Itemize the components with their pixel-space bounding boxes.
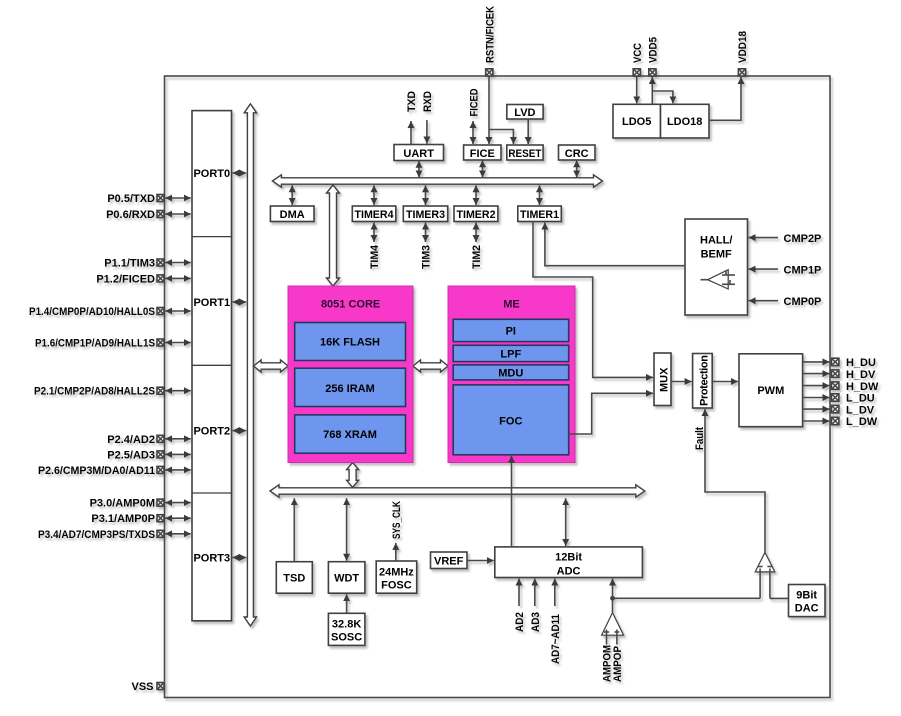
wire ADC to lower bus [565,498,567,546]
svg-text:VDD18: VDD18 [737,31,749,63]
wire UART to bus [418,161,420,178]
svg-text:VCC: VCC [632,43,644,63]
9Bit DAC box [789,585,826,617]
UART box [394,145,444,161]
wire SOSC to WDT [346,594,348,613]
op-amp AMP0 [602,598,624,644]
wire AD2 into ADC [518,579,520,607]
wire TIM4 [373,223,375,243]
svg-text:PWM: PWM [757,385,784,397]
svg-text:Protection: Protection [699,355,711,406]
svg-text:PORT0: PORT0 [193,168,230,180]
svg-text:CMP1P: CMP1P [784,264,822,276]
pin VCC [632,43,644,76]
svg-text:768 XRAM: 768 XRAM [323,429,377,441]
svg-text:P0.6/RXD: P0.6/RXD [106,209,155,221]
svg-text:CRC: CRC [565,148,589,160]
svg-text:H_DW: H_DW [846,381,879,393]
12Bit ADC box [495,547,643,578]
svg-text:CMP2P: CMP2P [784,233,822,245]
svg-text:DMA: DMA [280,209,305,221]
svg-text:UART: UART [403,148,434,160]
svg-text:P2.6/CMP3M/DA0/AD11: P2.6/CMP3M/DA0/AD11 [38,465,155,477]
wire DAC to comparator input [770,597,789,599]
wire junction to ADC [612,579,614,599]
ports column box [192,111,232,621]
svg-text:TIMER3: TIMER3 [406,209,445,221]
pin H_DW [832,381,880,393]
wire TIM3 [425,223,427,243]
wire AD3 into ADC [534,579,536,607]
pin VSS [131,681,164,693]
pin P0.6/RXD [106,209,191,221]
svg-text:LPF: LPF [500,348,521,360]
svg-text:HALL/: HALL/ [700,235,732,247]
wire FICED to FICE [472,121,474,144]
FICE box [464,145,501,160]
WDT box [328,562,365,594]
wire VREF to ADC [467,560,494,562]
wire VDD5 branch to LDO18 [652,91,673,103]
svg-text:TIM3: TIM3 [421,245,433,269]
svg-text:LDO5: LDO5 [622,116,651,128]
wire ADC to FOC [511,456,513,547]
pin P3.1/AMP0P [91,513,190,525]
svg-text:AD2: AD2 [514,612,526,632]
wire SYS_CLK [395,543,397,561]
wire WDT to bus [346,498,348,561]
hollow arrow ports bus to 8051 left [254,360,288,372]
svg-text:P1.4/CMP0P/AD10/HALL0S: P1.4/CMP0P/AD10/HALL0S [29,306,155,318]
LDO18 box [661,104,710,138]
comparator glyph inside HALL/BEMF [701,270,736,289]
svg-text:FICED: FICED [468,88,480,116]
LPF [453,345,569,361]
svg-text:SOSC: SOSC [331,631,362,643]
svg-text:VREF: VREF [434,556,464,568]
wire CRC to bus [576,160,578,177]
wire TIMER1 to bus [539,185,541,205]
DMA box [270,206,314,222]
svg-text:VDD5: VDD5 [647,37,659,63]
svg-text:BEMF: BEMF [701,249,732,261]
svg-text:P2.4/AD2: P2.4/AD2 [107,434,155,446]
TIMER4 box [352,206,396,222]
wire PWM to L_DV [803,408,830,410]
wire PWM to H_DV [803,373,830,375]
wire LDO18 to VDD18 pin [709,77,741,120]
wire PWM to H_DW [803,385,830,387]
svg-text:256 IRAM: 256 IRAM [325,383,375,395]
pin P0.5/TXD [107,193,190,205]
wire CMP0P input [749,300,779,302]
svg-text:TIMER1: TIMER1 [520,209,559,221]
pin P2.6/CMP3M/DA0/AD11 [38,465,191,477]
svg-text:H_DU: H_DU [846,357,876,369]
ports vertical bus [244,104,256,626]
svg-text:P2.5/AD3: P2.5/AD3 [107,449,155,461]
svg-text:24MHz: 24MHz [379,567,414,579]
FOC [453,385,569,455]
wire VCC to LDO5 [636,76,638,103]
wire Fault comparator to Protection [705,409,765,552]
wire Protection to PWM [712,381,738,383]
svg-text:12Bit: 12Bit [555,551,582,563]
comparator U2 near DAC [755,552,775,598]
lower peripheral bus [270,485,645,497]
svg-text:PI: PI [506,325,516,337]
32.8K SOSC box [328,613,365,645]
CRC box [559,145,596,160]
8051 CORE block [288,286,413,463]
upper peripheral bus [272,175,602,187]
RESET box [507,145,543,160]
svg-text:P3.4/AD7/CMP3PS/TXDS: P3.4/AD7/CMP3PS/TXDS [38,529,155,541]
PI [453,319,569,341]
svg-text:P1.6/CMP1P/AD9/HALL1S: P1.6/CMP1P/AD9/HALL1S [35,338,155,350]
svg-text:VSS: VSS [131,681,153,693]
svg-text:P1.1/TIM3: P1.1/TIM3 [104,258,155,270]
hollow arrow 8051 bottom to lower bus [347,463,359,488]
svg-text:TIM4: TIM4 [369,244,381,269]
wire CMP2P input [749,237,779,239]
wire LVD to RESET [527,119,529,144]
pin RSTN/FICEK [484,6,496,76]
svg-text:AD3: AD3 [530,612,542,632]
wire RSTN branch to RESET [489,130,513,145]
pin P1.2/FICED [96,273,190,285]
svg-text:RSTN/FICEK: RSTN/FICEK [484,6,496,63]
pin P1.4/CMP0P/AD10/HALL0S [29,306,191,318]
svg-text:FICE: FICE [470,148,495,160]
wire TIMER3 to bus [425,185,427,205]
pin L_DV [832,404,875,416]
24MHz FOSC box [376,561,417,593]
svg-text:P3.1/AMP0P: P3.1/AMP0P [91,513,155,525]
svg-text:TXD: TXD [406,91,418,112]
LVD box [507,105,543,120]
wire FICE to bus [482,160,484,177]
svg-text:LVD: LVD [514,107,535,119]
svg-text:PORT1: PORT1 [193,297,230,309]
ME block [448,286,575,463]
wire LDO5 to VDD5 pin [651,77,653,104]
svg-text:DAC: DAC [795,603,819,615]
pin L_DU [832,393,875,405]
svg-text:L_DU: L_DU [846,393,875,405]
wire AD7~AD11 into ADC [554,579,556,607]
wire DMA to bus [291,185,293,205]
wire MUX to Protection [671,381,692,383]
wire TXD out of UART [410,121,412,145]
svg-text:PORT2: PORT2 [193,426,230,438]
pin VDD18 [737,31,749,76]
wire PORT0 to port bus [233,172,247,174]
svg-text:9Bit: 9Bit [796,590,817,602]
MUX box [654,353,671,406]
pin P1.6/CMP1P/AD9/HALL1S [35,338,191,350]
pin P2.5/AD3 [107,449,191,461]
svg-text:TIM2: TIM2 [471,245,483,269]
svg-text:FOSC: FOSC [381,580,412,592]
wire TIM2 [475,223,477,243]
hollow arrow 8051 to ME [413,360,448,372]
svg-text:PORT3: PORT3 [193,553,230,565]
TIMER3 box [403,206,447,222]
LDO5 box [613,104,661,138]
svg-text:P3.0/AMP0M: P3.0/AMP0M [90,498,155,510]
wire TSD to bus [293,498,295,562]
svg-text:LDO18: LDO18 [667,116,702,128]
svg-text:AD7~AD11: AD7~AD11 [550,614,562,664]
TSD box [276,562,312,594]
svg-text:ADC: ADC [557,565,581,577]
wire TIMER4 to bus [373,185,375,205]
TIMER2 box [454,206,498,222]
svg-text:WDT: WDT [334,573,359,585]
hollow arrow bus to 8051 top [327,185,340,286]
svg-text:P1.2/FICED: P1.2/FICED [96,273,155,285]
wire TIMER1 to MUX [533,222,653,378]
MDU [453,365,569,380]
pin P3.0/AMP0M [90,498,191,510]
svg-text:CMP0P: CMP0P [784,296,822,308]
PWM box [739,354,803,427]
VREF box [431,552,468,569]
wire RSTN/FICEK to FICE [488,76,490,144]
svg-text:RESET: RESET [508,148,541,160]
pin P2.1/CMP2P/AD8/HALL2S [34,386,191,398]
pin VDD5 [647,37,659,76]
wire amp junction to comparator input [613,597,761,599]
svg-text:TIMER4: TIMER4 [355,209,395,221]
svg-text:MUX: MUX [659,367,671,392]
svg-text:32.8K: 32.8K [332,618,361,630]
wire HALL/BEMF out to TIMER1 [545,223,685,266]
svg-text:FOC: FOC [499,415,522,427]
svg-text:TSD: TSD [283,573,305,585]
16K FLASH [295,323,406,361]
wire PWM to L_DW [803,420,830,422]
pin P1.1/TIM3 [104,258,191,270]
svg-text:ME: ME [503,298,520,310]
svg-text:16K FLASH: 16K FLASH [320,337,380,349]
wire PORT1 to port bus [233,301,247,303]
pin P2.4/AD2 [107,434,191,446]
768 XRAM [295,415,406,453]
TIMER1 box [518,206,562,222]
wire RXD into UART [426,120,428,144]
wire TIMER2 to bus [475,185,477,205]
wire CMP1P input [749,268,779,270]
svg-text:L_DV: L_DV [846,404,875,416]
wire PORT2 to port bus [233,430,247,432]
svg-text:SYS_CLK: SYS_CLK [391,501,403,539]
pin P3.4/AD7/CMP3PS/TXDS [38,529,191,541]
256 IRAM [295,368,406,406]
svg-text:8051 CORE: 8051 CORE [321,298,380,310]
svg-text:L_DW: L_DW [846,416,878,428]
HALL/BEMF box [685,219,748,315]
Protection box [693,354,713,409]
svg-text:Fault: Fault [694,427,706,450]
wire PWM to L_DU [803,397,830,399]
pin H_DV [832,369,877,381]
svg-text:P2.1/CMP2P/AD8/HALL2S: P2.1/CMP2P/AD8/HALL2S [34,386,155,398]
svg-text:TIMER2: TIMER2 [457,209,496,221]
pin L_DW [832,416,878,428]
chip outer border [165,76,831,698]
svg-text:MDU: MDU [498,367,523,379]
node junction dot [610,596,615,601]
svg-text:RXD: RXD [422,91,434,112]
pin H_DU [832,357,877,369]
svg-text:P0.5/TXD: P0.5/TXD [107,193,155,205]
wire PWM to H_DU [803,361,830,363]
wire PORT3 to port bus [233,557,247,559]
svg-text:H_DV: H_DV [846,369,876,381]
svg-text:AMPOP: AMPOP [612,646,624,682]
wire FOC out to MUX [569,393,653,434]
